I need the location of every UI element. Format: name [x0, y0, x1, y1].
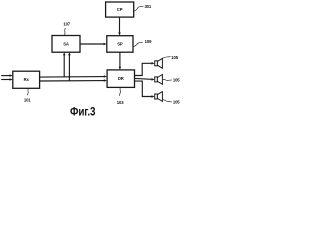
wire tap 1 up to SA — [63, 52, 66, 77]
svg-text:CP: CP — [117, 7, 123, 12]
block CP 301 — [106, 2, 134, 17]
svg-text:103: 103 — [117, 100, 124, 105]
wire arrow SP to DR — [119, 52, 122, 70]
svg-text:109: 109 — [145, 39, 152, 44]
label 105 leader (speaker 1) — [163, 57, 171, 59]
wire DR to speaker 2 — [135, 78, 155, 81]
svg-text:SP: SP — [117, 41, 123, 46]
label 301 leader — [134, 6, 144, 11]
wire arrow SA to SP — [80, 43, 107, 46]
wire bus line 2 Rx to DR — [40, 79, 107, 82]
block Rx (receiver) 101 — [13, 71, 40, 88]
svg-text:301: 301 — [144, 4, 151, 9]
svg-text:101: 101 — [24, 98, 31, 103]
block SA 107 — [52, 36, 80, 53]
label 105 leader (speaker 3) — [163, 100, 172, 102]
svg-text:Фиг.3: Фиг.3 — [70, 105, 96, 119]
svg-text:DR: DR — [118, 76, 124, 81]
svg-text:SA: SA — [63, 41, 69, 46]
svg-text:Rx: Rx — [24, 77, 30, 82]
wire tap 2 up to SA — [68, 52, 71, 81]
speaker 2 (105) — [155, 75, 163, 85]
svg-text:105: 105 — [171, 55, 178, 60]
label 103 leader — [120, 88, 121, 96]
label 101 leader — [27, 89, 28, 96]
label 107 leader — [64, 28, 65, 35]
wire bus line 1 Rx to DR — [40, 75, 107, 78]
wire input arrow 1 into Rx — [1, 74, 13, 77]
wire DR to speaker 3 — [135, 81, 155, 98]
block SP 109 — [107, 36, 133, 53]
svg-text:105: 105 — [173, 78, 180, 83]
label 105 leader (speaker 2) — [163, 79, 172, 80]
svg-text:107: 107 — [63, 22, 70, 27]
block DR (driver) 103 — [107, 70, 134, 88]
wire DR to speaker 1 — [135, 62, 155, 76]
speaker 1 (105) — [155, 58, 163, 68]
label 109 leader — [133, 42, 143, 46]
wire input arrow 2 into Rx — [1, 78, 13, 81]
svg-text:105: 105 — [173, 99, 180, 104]
speaker 3 (105) — [155, 92, 163, 102]
wire arrow CP to SP — [118, 17, 121, 35]
